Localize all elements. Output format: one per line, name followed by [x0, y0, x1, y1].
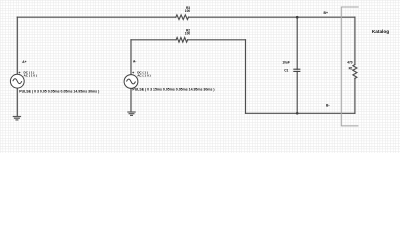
wire right vertical above R1 [354, 17, 356, 64]
svg-text:R1: R1 [349, 67, 353, 71]
wire V2 horizontal left of R2 [131, 39, 176, 41]
wire V1 vertical lower [16, 88, 18, 116]
resistor R3 [176, 15, 189, 20]
svg-text:A-: A- [133, 60, 136, 64]
wire right vertical below R1 [354, 78, 356, 113]
background grid [0, 0, 400, 153]
svg-text:B-: B- [326, 103, 330, 107]
wire top rail B+ right of R3 [189, 16, 355, 18]
wire V2 vertical lower [130, 88, 132, 111]
component box (Katalog) [341, 7, 358, 126]
svg-text:100: 100 [185, 31, 191, 35]
svg-text:10uF: 10uF [282, 61, 289, 65]
svg-text:PULSE ( 0 3 0.05 0.05ms 0.05ms: PULSE ( 0 3 0.05 0.05ms 0.05ms 14.95ms 3… [19, 90, 99, 94]
svg-text:Katalog: Katalog [372, 29, 389, 34]
svg-text:B+: B+ [324, 11, 328, 15]
wire bottom rail B- [246, 112, 355, 114]
voltage source V2 [124, 75, 138, 89]
svg-text:A+: A+ [22, 60, 26, 64]
resistor R2 [176, 38, 187, 43]
svg-text:PULSE ( 0 3 15ms 0.05ms 0.05ms: PULSE ( 0 3 15ms 0.05ms 0.05ms 14.95ms 3… [132, 87, 214, 91]
wire capacitor branch lower [296, 71, 298, 113]
svg-text:AC ( 1 0 ): AC ( 1 0 ) [24, 73, 37, 77]
svg-text:C1: C1 [284, 68, 288, 72]
capacitor C1 plates [293, 69, 300, 71]
resistor R1 [353, 65, 357, 79]
voltage source V1 [10, 74, 24, 88]
svg-text:470: 470 [347, 60, 353, 64]
junction dot bottom [296, 112, 299, 115]
wire capacitor branch upper [296, 17, 298, 69]
ground under V2 [127, 112, 135, 115]
wire V2 horizontal right of R2 [188, 39, 246, 41]
wire V2 vertical upper [130, 40, 132, 75]
wire V1 vertical upper [16, 17, 18, 74]
wire middle vertical down to B- [245, 40, 247, 114]
svg-text:100: 100 [185, 9, 191, 13]
junction dot top [296, 16, 299, 19]
ground under V1 [13, 117, 21, 120]
svg-text:AC ( 1 0 ): AC ( 1 0 ) [137, 73, 150, 77]
wire top rail B+ left of R3 [17, 16, 176, 18]
